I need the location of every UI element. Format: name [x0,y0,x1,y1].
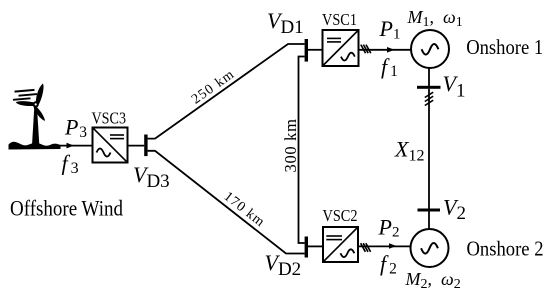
wire VD1 to VSC1 [308,49,323,51]
bus V1 [417,86,441,89]
three-phase hatch after VSC2 [361,243,371,252]
dc line 300 km [299,57,305,244]
svg-text:Offshore Wind: Offshore Wind [10,195,123,220]
line X12 [428,89,430,209]
dc symbol [110,134,124,136]
svg-text:VSC3: VSC3 [92,108,127,127]
wire turbine to VSC3 with arrow [58,143,93,149]
wire VSC3 to bus VD3 [128,145,145,147]
blade down-right [33,106,45,121]
wire VSC2 to M2 with arrow [358,243,411,249]
wire M1 down to bus V1 [428,68,430,86]
svg-text:VSC2: VSC2 [323,206,358,225]
svg-text:VSC1: VSC1 [322,10,357,29]
bus V2 [418,209,441,212]
blade up [36,84,44,105]
dc symbol [327,37,341,39]
svg-text:Onshore 2: Onshore 2 [467,236,544,260]
svg-text:300 km: 300 km [281,118,300,172]
converter VSC1 [322,10,359,66]
bus VD3 [144,135,147,157]
svg-text:M2, ω2: M2, ω2 [405,269,461,292]
dc symbol [326,235,342,237]
bus VD2 [305,237,308,258]
ac symbol [341,249,355,257]
ac symbol [97,149,111,157]
speed lines [14,89,34,93]
three-phase hatch below V1 [425,92,433,105]
svg-text:Onshore 1: Onshore 1 [466,35,543,59]
wind turbine [9,84,61,150]
hub [33,101,39,107]
tower [32,106,39,146]
converter VSC2 [323,206,359,262]
machine M2 [411,229,449,267]
dc line 250 km [148,44,305,139]
wire bus V2 down to M2 [428,212,430,230]
machine M1 [411,30,449,68]
ac symbol [341,53,355,61]
dc line 170 km [148,151,305,254]
base waves [9,142,61,150]
svg-text:M1, ω1: M1, ω1 [407,7,463,30]
wire VSC1 to M1 with arrow [359,47,412,53]
bus VD1 [305,39,308,62]
wire VD2 to VSC2 [308,245,323,247]
three-phase hatch after VSC1 [361,45,371,54]
converter VSC3 [92,108,128,162]
blade left [16,101,36,106]
